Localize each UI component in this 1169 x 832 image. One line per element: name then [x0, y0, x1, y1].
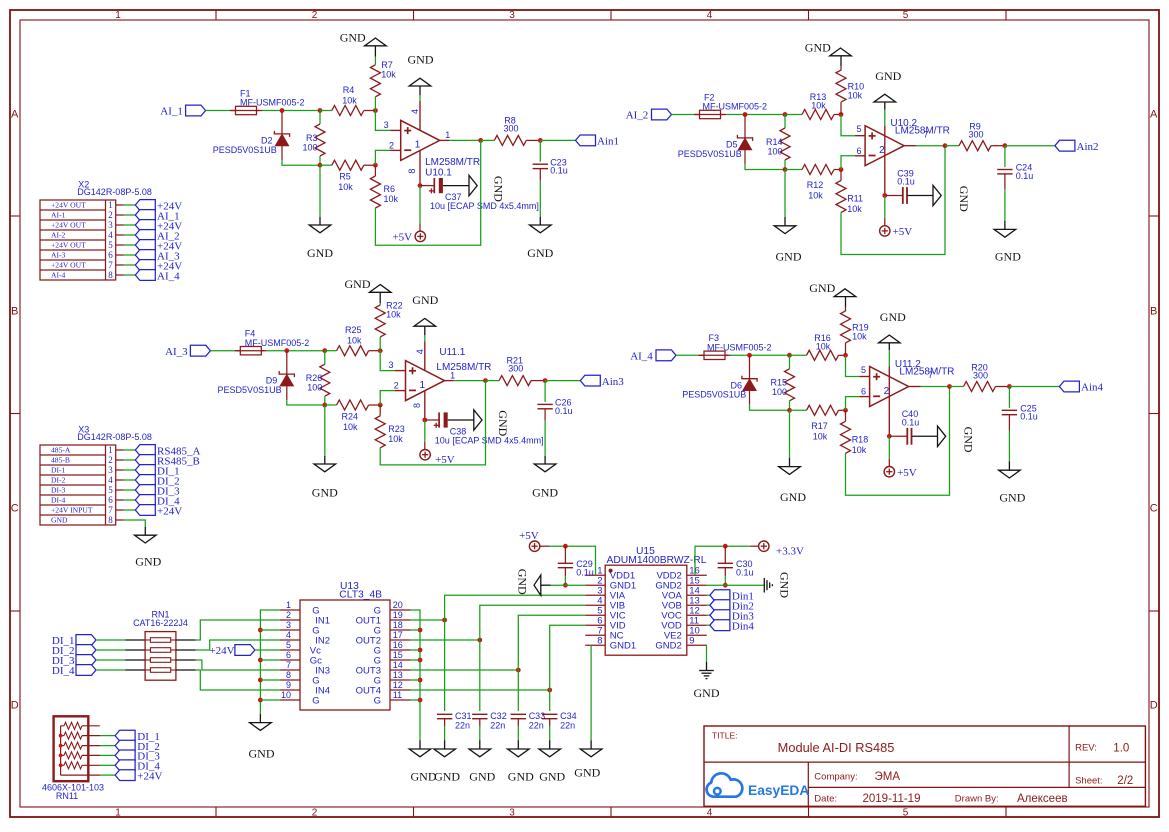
wire [375, 111, 390, 131]
wire [551, 584, 586, 586]
pin 1 G [280, 609, 300, 611]
wire [116, 234, 124, 236]
node [373, 163, 378, 168]
svg-text:20: 20 [393, 600, 403, 610]
svg-text:300: 300 [973, 371, 988, 381]
ground [779, 467, 801, 475]
svg-text:7: 7 [108, 260, 113, 270]
resistor R5 [320, 164, 332, 166]
ground [309, 225, 331, 233]
svg-text:CLT3_4B: CLT3_4B [339, 589, 382, 600]
svg-text:GND: GND [508, 770, 534, 784]
resistor R21 [486, 380, 500, 382]
svg-text:GND: GND [880, 310, 906, 324]
diode D9 [286, 351, 288, 374]
svg-text:GND: GND [778, 572, 792, 598]
ground [469, 749, 491, 757]
node [258, 698, 263, 703]
ground [830, 48, 852, 56]
net flag AI_4 [135, 270, 155, 281]
resistor R23 [375, 416, 385, 448]
ground [414, 318, 436, 326]
svg-text:10k: 10k [338, 182, 353, 192]
svg-text:0.1u: 0.1u [736, 567, 754, 577]
wire [82, 725, 100, 727]
port flag DI_4 [76, 665, 96, 676]
wire [707, 584, 765, 586]
net flag AI_1 [135, 210, 155, 221]
net flag Din2 [710, 600, 730, 611]
svg-text:10k: 10k [811, 101, 826, 111]
wire [255, 649, 280, 651]
svg-text:R25: R25 [345, 325, 362, 335]
wire [550, 625, 586, 690]
svg-text:DI-4: DI-4 [51, 496, 66, 505]
net flag Din1 [710, 590, 730, 601]
svg-text:R5: R5 [339, 172, 351, 182]
wire [260, 629, 280, 631]
wire [411, 689, 550, 691]
fuse F3 [699, 354, 705, 356]
svg-text:GND: GND [961, 427, 975, 453]
node [839, 167, 844, 172]
ground [999, 470, 1021, 478]
wire [888, 350, 890, 366]
svg-text:GND: GND [957, 186, 971, 212]
svg-text:PESD5V0S1UB: PESD5V0S1UB [682, 390, 746, 400]
net flag DI_4 [135, 495, 155, 506]
ground [580, 749, 602, 757]
svg-text:100: 100 [767, 146, 782, 156]
pin 1 indicator dot [609, 569, 613, 573]
svg-text:4: 4 [108, 475, 113, 485]
svg-text:7: 7 [928, 370, 933, 380]
capacitor C30 [724, 546, 726, 563]
svg-text:10k: 10k [816, 341, 831, 351]
fuse F2 [694, 114, 700, 116]
power +5V [529, 541, 539, 551]
svg-text:AI_1: AI_1 [160, 106, 183, 118]
svg-text:+5V: +5V [519, 530, 539, 542]
wire [707, 594, 710, 596]
resistor R15 [789, 355, 791, 369]
ground [369, 285, 391, 293]
node [258, 628, 263, 633]
svg-text:MF-USMF005-2: MF-USMF005-2 [240, 98, 305, 108]
svg-text:0.1u: 0.1u [1020, 412, 1038, 422]
net flag DI_3 [115, 750, 135, 761]
svg-text:GND: GND [999, 491, 1025, 505]
svg-text:GND: GND [496, 410, 510, 436]
wire [695, 546, 750, 575]
wire [176, 639, 196, 641]
node [1007, 384, 1012, 389]
svg-text:10k: 10k [384, 194, 399, 204]
wire [884, 196, 886, 218]
node [418, 183, 423, 188]
svg-text:R12: R12 [807, 180, 824, 190]
wire [116, 214, 124, 216]
wire [82, 745, 100, 747]
svg-text:AI-2: AI-2 [51, 231, 66, 240]
node [418, 648, 423, 653]
svg-text:10k: 10k [852, 445, 867, 455]
resistor R14 [784, 115, 786, 129]
svg-text:AI-3: AI-3 [51, 251, 66, 260]
wire [176, 669, 196, 671]
svg-text:B: B [11, 306, 18, 318]
svg-text:10k: 10k [813, 431, 828, 441]
wire [480, 605, 585, 640]
pin 20 G [390, 609, 411, 611]
svg-text:GND: GND [780, 490, 806, 504]
ground [763, 578, 765, 593]
svg-text:LM258M/TR: LM258M/TR [899, 366, 954, 377]
wire [116, 459, 124, 461]
net flag Ain4 [1059, 381, 1079, 392]
svg-text:Алексеев: Алексеев [1017, 793, 1068, 805]
ground [994, 229, 1016, 237]
pin 6 VID [585, 624, 605, 626]
svg-text:D: D [11, 700, 19, 712]
pin 11 G [390, 699, 411, 701]
wire [287, 400, 325, 405]
svg-text:A: A [1150, 109, 1158, 121]
node [843, 353, 848, 358]
wire [445, 595, 586, 620]
wire [116, 449, 124, 451]
svg-text:9: 9 [689, 636, 694, 647]
wire [96, 659, 125, 661]
svg-text:6: 6 [856, 146, 861, 156]
svg-text:U10.1: U10.1 [425, 167, 452, 178]
svg-text:22n: 22n [529, 721, 544, 731]
svg-text:10k: 10k [342, 95, 357, 105]
svg-text:4: 4 [415, 349, 425, 354]
svg-text:DI-3: DI-3 [51, 486, 66, 495]
svg-text:GND: GND [875, 69, 901, 83]
fuse F4 [235, 350, 241, 352]
connector X2 [40, 200, 116, 280]
pin 13 G [390, 679, 411, 681]
svg-text:0.1u: 0.1u [550, 166, 568, 176]
wire [82, 764, 100, 766]
op-amp U11.1 [406, 361, 445, 401]
wire [424, 341, 426, 370]
wire [380, 351, 395, 371]
pin 8 GND1 [585, 644, 605, 646]
svg-text:AI_2: AI_2 [626, 110, 649, 122]
svg-text:R14: R14 [766, 137, 783, 147]
wire [846, 397, 860, 411]
wire [444, 620, 446, 711]
wire [282, 160, 320, 165]
node [418, 628, 423, 633]
svg-text:GND2: GND2 [655, 641, 681, 652]
svg-text:12: 12 [393, 680, 403, 690]
svg-text:A: A [11, 109, 19, 121]
wire [1004, 190, 1006, 221]
pin 7 NC [585, 634, 605, 636]
node [318, 163, 323, 168]
ground [933, 185, 941, 205]
svg-text:1: 1 [108, 200, 113, 210]
wire [210, 350, 237, 352]
wire [82, 735, 100, 737]
svg-text:10k: 10k [347, 336, 362, 346]
svg-text:2019-11-19: 2019-11-19 [863, 793, 921, 805]
pin 15 GND2 [687, 584, 707, 586]
wire [411, 619, 445, 621]
wire [479, 726, 481, 740]
svg-text:GND: GND [434, 770, 460, 784]
resistor R19 [845, 307, 847, 311]
pin 2 GND1 [585, 584, 605, 586]
wire [196, 620, 281, 640]
net flag Ain3 [580, 375, 600, 386]
svg-text:RN11: RN11 [56, 791, 78, 801]
wire [267, 350, 325, 352]
wire [909, 386, 921, 388]
capacitor C23 [539, 140, 541, 161]
wire [116, 499, 124, 501]
wire [745, 164, 785, 170]
svg-text:C: C [11, 503, 19, 515]
wire [1009, 386, 1059, 388]
wire [549, 690, 551, 711]
node [723, 544, 728, 549]
node [478, 138, 483, 143]
node [887, 434, 892, 439]
wire [841, 146, 945, 255]
diode D2 [281, 111, 283, 134]
svg-text:4: 4 [707, 807, 713, 818]
svg-text:1: 1 [115, 807, 121, 818]
wire [411, 649, 421, 651]
resistor R18 [845, 410, 847, 421]
resistor R4 [320, 110, 332, 112]
pin 12 OUT4 [390, 689, 411, 691]
svg-text:10k: 10k [808, 191, 823, 201]
wire [260, 699, 280, 701]
wire [750, 405, 790, 411]
wire [375, 150, 390, 165]
ground [474, 410, 482, 430]
svg-text:14: 14 [393, 660, 403, 670]
svg-text:+24V OUT: +24V OUT [51, 201, 86, 210]
svg-text:10k: 10k [848, 91, 863, 101]
svg-text:2: 2 [108, 455, 113, 465]
wire [424, 391, 426, 420]
svg-text:8: 8 [412, 403, 422, 408]
svg-text:GND: GND [532, 486, 558, 500]
svg-text:ЭМА: ЭМА [875, 771, 901, 783]
svg-text:GND: GND [539, 770, 565, 784]
svg-text:0.1u: 0.1u [897, 177, 915, 187]
wire [544, 421, 546, 456]
svg-text:Company:: Company: [814, 771, 857, 782]
port flag AI_2 [652, 109, 672, 120]
wire [260, 610, 280, 714]
svg-text:GND: GND [469, 770, 495, 784]
wire [196, 660, 281, 670]
wire [540, 139, 575, 141]
ground [699, 670, 714, 672]
svg-text:ADUM1400BRWZ-RL: ADUM1400BRWZ-RL [607, 555, 707, 566]
pin 9 GND2 [687, 644, 707, 646]
port flag DI_2 [76, 645, 96, 656]
node [442, 618, 447, 623]
ground [409, 749, 431, 757]
net flag +24V [115, 770, 135, 781]
power +5V [415, 231, 425, 241]
net flag +24V [135, 505, 155, 516]
node [747, 353, 752, 358]
svg-text:+24V: +24V [157, 505, 182, 517]
pin 4 IN2 [280, 639, 300, 641]
diode D5 [744, 115, 746, 138]
svg-text:300: 300 [508, 364, 523, 374]
wire [445, 380, 454, 382]
svg-text:AI_4: AI_4 [630, 351, 653, 363]
node [418, 678, 423, 683]
wire [846, 355, 860, 376]
svg-text:8: 8 [108, 270, 113, 280]
capacitor C33 [511, 713, 526, 715]
svg-text:6: 6 [108, 495, 113, 505]
wire [724, 568, 726, 576]
svg-text:C32: C32 [490, 711, 507, 721]
svg-text:3: 3 [384, 120, 389, 130]
pin 10 VE2 [687, 634, 707, 636]
svg-text:4: 4 [286, 630, 291, 640]
svg-text:1.0: 1.0 [1113, 742, 1129, 754]
port flag AI_4 [656, 350, 676, 361]
svg-text:GND1: GND1 [610, 641, 636, 652]
svg-text:18: 18 [393, 620, 403, 630]
net flag Ain2 [1055, 140, 1075, 151]
capacitor C31 [437, 713, 452, 715]
svg-text:Ain1: Ain1 [597, 136, 619, 148]
svg-text:5: 5 [286, 640, 291, 650]
net flag AI_3 [135, 250, 155, 261]
node [723, 583, 728, 588]
EasyEDA logo [707, 773, 743, 796]
svg-text:Din4: Din4 [732, 620, 755, 632]
svg-text:1: 1 [286, 600, 291, 610]
svg-text:GND: GND [776, 249, 802, 263]
wire [196, 640, 281, 650]
svg-text:CAT16-222J4: CAT16-222J4 [133, 618, 188, 628]
resistor R16 [790, 354, 807, 356]
ground [250, 723, 272, 731]
svg-text:10k: 10k [386, 310, 401, 320]
svg-text:11: 11 [393, 690, 402, 700]
capacitor C26 [544, 381, 546, 402]
net flag Din3 [710, 610, 730, 621]
svg-text:R24: R24 [342, 412, 359, 422]
pin 3 VIA [585, 594, 605, 596]
svg-text:MF-USMF005-2: MF-USMF005-2 [703, 102, 768, 112]
net flag DI_4 [115, 760, 135, 771]
svg-text:10u [ECAP SMD 4x5.4mm]: 10u [ECAP SMD 4x5.4mm] [430, 201, 539, 211]
wire [411, 679, 421, 681]
resistor R26 [324, 351, 326, 365]
wire [116, 274, 124, 276]
node [563, 583, 568, 588]
svg-text:17: 17 [393, 630, 403, 640]
svg-text:0.1u: 0.1u [576, 567, 594, 577]
svg-text:PESD5V0S1UB: PESD5V0S1UB [218, 385, 282, 395]
resistor R6 [370, 176, 380, 208]
svg-text:R6: R6 [384, 184, 396, 194]
resistor R9 [945, 145, 959, 147]
pin 19 OUT1 [390, 619, 411, 621]
node [783, 167, 788, 172]
ground [874, 94, 896, 102]
wire [380, 391, 395, 405]
IC U13 CLT3_4B [300, 600, 390, 710]
node [280, 108, 285, 113]
wire [116, 469, 124, 471]
svg-text:R17: R17 [811, 421, 828, 431]
svg-text:GND: GND [408, 53, 434, 67]
svg-text:LM258M/TR: LM258M/TR [895, 126, 950, 137]
wire [96, 649, 125, 651]
resistor R7 [374, 57, 376, 65]
IC U15 ADUM1400BRWZ-RL [605, 565, 687, 655]
pin 11 VOD [687, 624, 707, 626]
svg-text:GND: GND [694, 686, 720, 700]
svg-text:13: 13 [393, 670, 403, 680]
svg-text:GND: GND [516, 569, 530, 595]
svg-text:R18: R18 [852, 434, 869, 444]
svg-text:+5V: +5V [893, 226, 913, 238]
svg-text:AI-4: AI-4 [51, 271, 66, 280]
svg-text:485-B: 485-B [51, 456, 70, 465]
pin 2 IN1 [280, 619, 300, 621]
svg-text:LM258M/TR: LM258M/TR [425, 157, 480, 168]
svg-text:6: 6 [861, 387, 866, 397]
svg-text:MF-USMF005-2: MF-USMF005-2 [245, 338, 310, 348]
svg-text:Ain4: Ain4 [1081, 382, 1104, 394]
wire [374, 165, 376, 176]
wire [444, 726, 446, 740]
wire [411, 610, 421, 740]
svg-text:PESD5V0S1UB: PESD5V0S1UB [213, 145, 277, 155]
svg-text:15: 15 [393, 650, 403, 660]
svg-text:Ain2: Ain2 [1077, 141, 1099, 153]
svg-text:2: 2 [389, 141, 394, 151]
ground [469, 175, 477, 195]
svg-text:GND: GND [307, 246, 333, 260]
wire [518, 615, 585, 670]
wire [116, 264, 124, 266]
net flag DI_3 [135, 485, 155, 496]
svg-text:100: 100 [302, 142, 317, 152]
svg-text:AI_4: AI_4 [157, 270, 180, 282]
node [483, 378, 488, 383]
resistor R10 [840, 66, 842, 70]
node [547, 688, 552, 693]
node [322, 403, 327, 408]
title block [704, 726, 1145, 806]
pin 8 G [280, 679, 300, 681]
svg-text:AI_3: AI_3 [165, 346, 188, 358]
resistor R25 [325, 350, 337, 352]
svg-text:8: 8 [108, 515, 113, 525]
svg-text:TITLE:: TITLE: [712, 731, 738, 741]
